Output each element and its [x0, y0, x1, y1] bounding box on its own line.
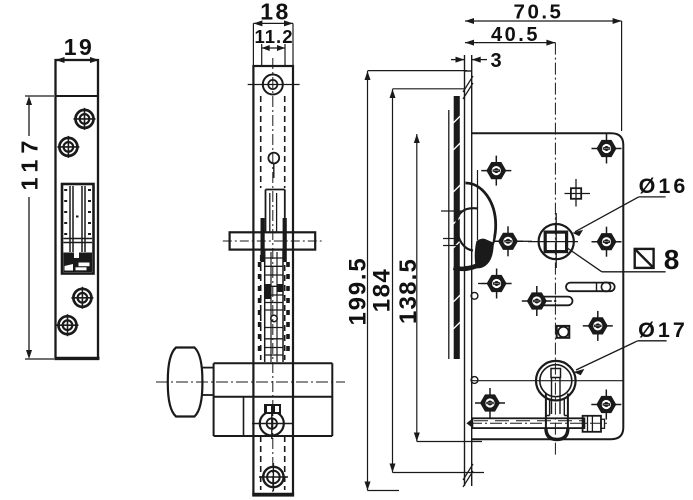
knob neck: [202, 367, 213, 369]
cylinder keyway: [551, 378, 553, 415]
latch bolt block: [64, 253, 93, 273]
latch window frame: [62, 184, 94, 274]
dimension line 40.5: [465, 42, 555, 44]
svg-text:3: 3: [490, 50, 501, 72]
hex screw B: [592, 134, 622, 164]
square8 symbol: [635, 249, 654, 268]
svg-text:138.5: 138.5: [395, 258, 422, 324]
latch window margin ticks: [64, 189, 91, 235]
dimension line 18: [253, 22, 293, 24]
cylinder profile tail: [546, 394, 568, 433]
deadbolt bar: [470, 418, 607, 428]
screw hole bottom2: [57, 314, 79, 336]
svg-text:70.5: 70.5: [514, 1, 564, 24]
hex screw E: [482, 269, 512, 299]
small square hole with cross: [565, 179, 591, 207]
cylinder cam rect: [551, 369, 561, 378]
svg-text:Ø17: Ø17: [638, 318, 688, 342]
top screw: [248, 75, 300, 95]
lock case outline: [472, 133, 624, 439]
slot pill 1: [566, 283, 615, 292]
screw hole top1: [74, 108, 96, 130]
bottom screw: [259, 463, 288, 491]
stump side ticks: [258, 262, 290, 351]
latch bolt bottom swoosh: [454, 263, 485, 269]
knob: [168, 348, 203, 417]
hex screw C: [493, 226, 523, 256]
case seam horizontal: [472, 380, 624, 382]
case centerline vertical: [554, 43, 556, 456]
slot pill 2: [538, 297, 573, 306]
latch bolt arc: [466, 183, 496, 267]
dimension line 3: [451, 59, 487, 61]
deadbolt nut: [583, 416, 605, 432]
cylinder screw: [252, 407, 292, 439]
svg-text:117: 117: [17, 135, 43, 191]
dimension 117 vertical line: [25, 96, 54, 359]
svg-text:18: 18: [260, 0, 291, 25]
latch bolt inner hook: [456, 208, 478, 250]
dimension line 11.2: [262, 47, 285, 49]
vertical centerline: [272, 58, 274, 492]
faceplate side outline: [253, 66, 293, 496]
hex screw A: [481, 156, 511, 186]
follower square 8mm: [545, 232, 566, 252]
hex screw H: [475, 388, 505, 418]
screw hole top2: [57, 136, 79, 158]
svg-text:11.2: 11.2: [255, 26, 294, 47]
svg-text:Ø16: Ø16: [639, 174, 689, 198]
extension lines: [253, 23, 293, 66]
lock faceplate edge-on: [465, 55, 472, 486]
dimension 138.5: [417, 134, 482, 442]
dimension line 19: [56, 59, 100, 61]
edge pin bumps: [471, 292, 478, 299]
hub side plates: [261, 218, 265, 262]
hex screw I: [591, 390, 621, 420]
cylinder centerline: [156, 381, 345, 383]
svg-text:184: 184: [368, 268, 395, 313]
hex screw F: [522, 286, 552, 316]
latch bolt lines: [64, 238, 93, 240]
leader O17: [638, 340, 667, 342]
leader O16: [639, 196, 666, 198]
deadbolt inner line: [474, 420, 582, 422]
leader square8: [567, 248, 602, 272]
latch guide lines: [441, 210, 465, 212]
follower pin circle: [268, 153, 279, 164]
dimension 199.5: [368, 71, 468, 491]
faceplate break marks: [463, 76, 473, 487]
screw hole bottom1: [71, 287, 93, 309]
latch window guides: [70, 186, 85, 252]
strike plate section bar: [454, 96, 460, 359]
hub housing: [266, 190, 285, 233]
strike plate section front line: [448, 110, 450, 359]
faceplate seam: [56, 95, 99, 97]
stump dark blocks: [264, 284, 271, 299]
hex screw D: [592, 227, 622, 257]
cylinder hole O17: [536, 361, 576, 401]
dimension line 70.5: [465, 20, 622, 22]
hidden case edges upper: [261, 96, 285, 188]
cylinder body: [214, 363, 333, 436]
svg-text:8: 8: [664, 244, 680, 275]
hex screw G: [583, 311, 613, 341]
latch bolt fill: [475, 239, 494, 269]
dimension 184: [393, 89, 485, 473]
svg-text:19: 19: [64, 34, 95, 60]
faceplate front outline: [56, 60, 99, 359]
stump ladder: [265, 250, 283, 362]
hidden case edges lower: [261, 255, 285, 490]
small square with circle: [557, 326, 570, 338]
follower circle O16: [539, 224, 574, 259]
spindle centerline: [223, 240, 322, 242]
spindle bar: [230, 232, 316, 249]
